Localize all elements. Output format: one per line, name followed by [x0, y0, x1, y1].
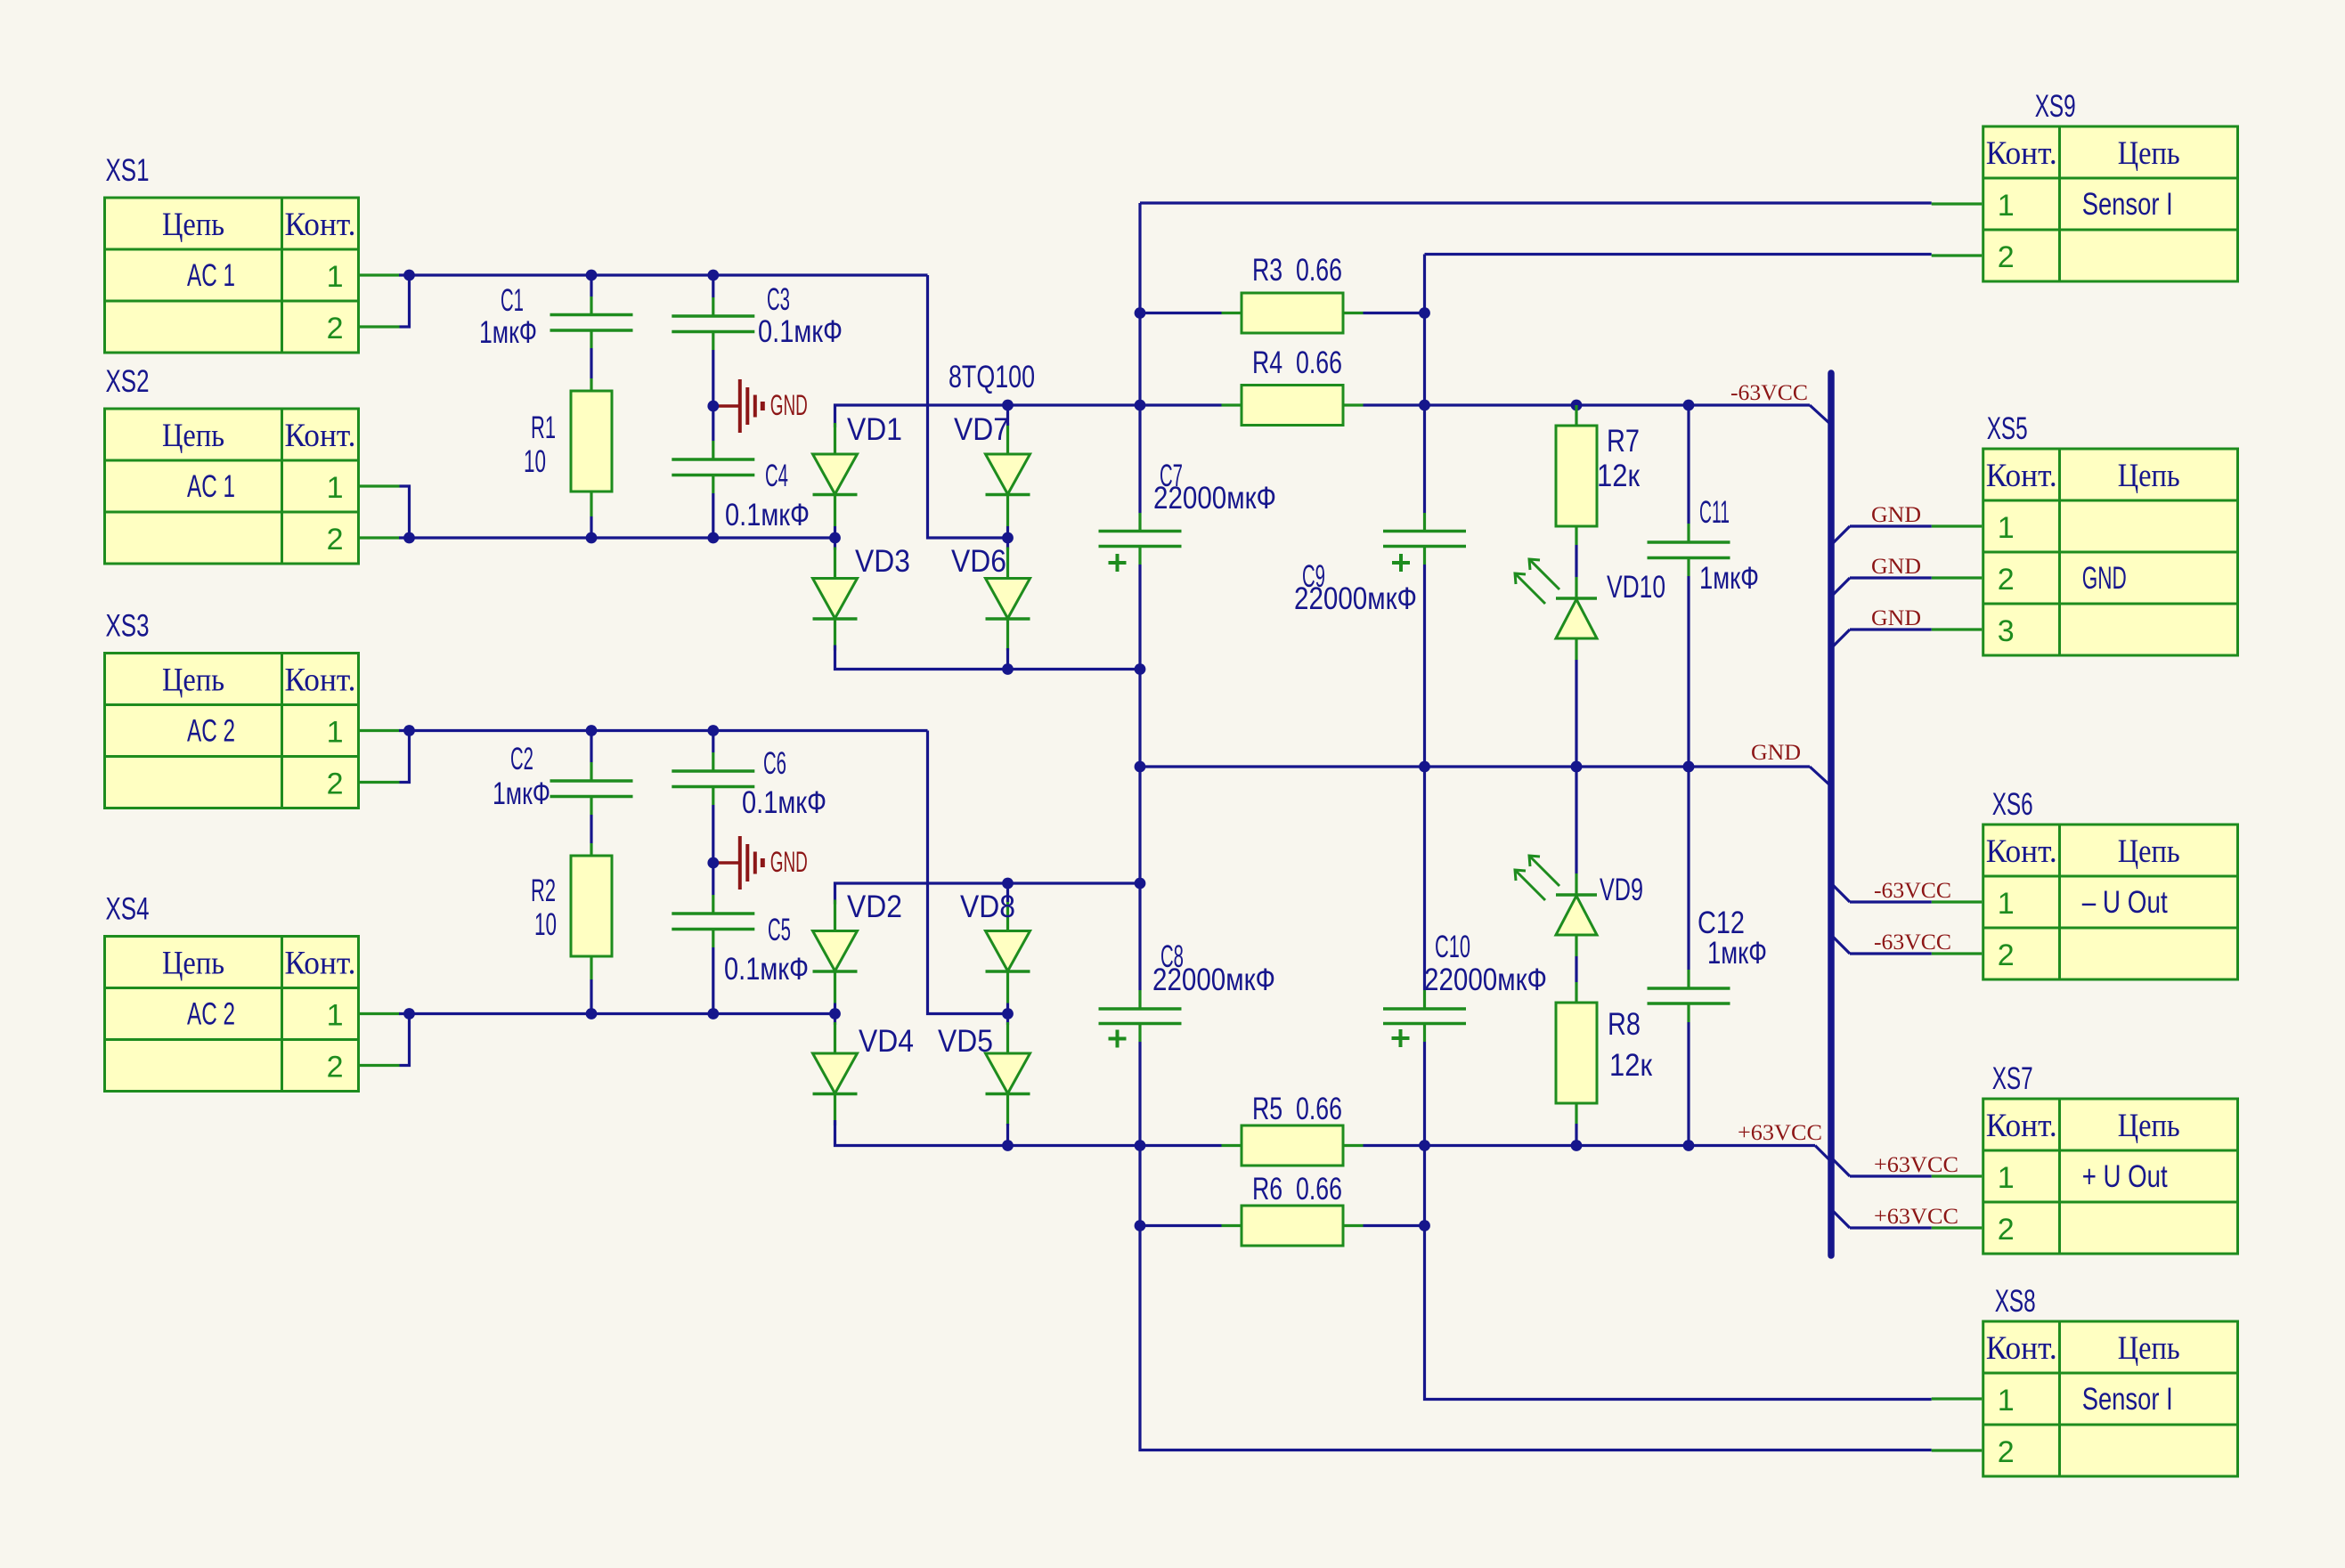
- svg-text:AC 2: AC 2: [187, 997, 235, 1032]
- svg-text:R1: R1: [531, 410, 556, 445]
- svg-text:VD2: VD2: [847, 890, 902, 924]
- resistor R6: [1140, 1206, 1425, 1246]
- svg-text:1: 1: [1998, 887, 2015, 921]
- svg-text:Цепь: Цепь: [2118, 135, 2180, 172]
- svg-text:1мкФ: 1мкФ: [479, 315, 537, 350]
- svg-text:Конт.: Конт.: [285, 946, 356, 982]
- svg-text:VD10: VD10: [1607, 570, 1665, 605]
- svg-text:Цепь: Цепь: [2118, 1108, 2180, 1144]
- connector XS5: [1932, 411, 2238, 655]
- junction C6 top: [707, 725, 719, 736]
- svg-text:0.1мкФ: 0.1мкФ: [724, 952, 809, 987]
- label C12: [1698, 906, 1767, 971]
- svg-text:2: 2: [1998, 563, 2015, 597]
- wire VD7-VD6 mid: [1006, 526, 1009, 550]
- capacitor C5: [672, 863, 754, 1014]
- label R8: [1608, 1007, 1653, 1083]
- svg-text:Sensor I: Sensor I: [2082, 1382, 2173, 1417]
- svg-text:GND: GND: [1751, 741, 1801, 765]
- ground symbol GND (bottom): [713, 836, 808, 890]
- connector XS6: [1932, 787, 2238, 979]
- svg-text:2: 2: [327, 312, 344, 345]
- svg-text:22000мкФ: 22000мкФ: [1153, 481, 1276, 516]
- svg-text:-63VCC: -63VCC: [1874, 930, 1951, 955]
- junction R3/C9col: [1419, 307, 1430, 319]
- svg-text:XS3: XS3: [106, 609, 150, 644]
- junction R2 bottom: [586, 1008, 598, 1020]
- junction C2 top: [586, 725, 598, 736]
- svg-text:GND: GND: [770, 389, 808, 421]
- label VD1: [847, 412, 902, 447]
- svg-text:1: 1: [1998, 1384, 2015, 1418]
- label VD8: [960, 890, 1015, 924]
- net label -63VCC (XS6 pin 1): [1874, 879, 1951, 903]
- svg-text:0.1мкФ: 0.1мкФ: [758, 314, 843, 349]
- junction VD6 bottom: [1002, 663, 1014, 675]
- label R2: [531, 873, 557, 942]
- wire C7 column vertical: [1140, 203, 1932, 1450]
- resistor R5: [1140, 1125, 1425, 1166]
- LED VD10: [1556, 545, 1597, 767]
- svg-text:R4 0.66: R4 0.66: [1252, 345, 1342, 380]
- junction XS4 tie: [403, 1008, 415, 1020]
- capacitor C7: [1099, 513, 1182, 565]
- junction C12 top: [1683, 761, 1695, 773]
- connector XS4: [105, 892, 400, 1092]
- svg-text:0.1мкФ: 0.1мкФ: [725, 498, 810, 532]
- polarity + C10: [1392, 1029, 1410, 1047]
- junction bridge2/C8col: [1135, 878, 1146, 890]
- svg-text:10: 10: [534, 907, 557, 942]
- svg-text:+63VCC: +63VCC: [1874, 1153, 1958, 1177]
- diode VD5: [986, 1022, 1030, 1125]
- junction VD7 top: [1002, 400, 1014, 411]
- label VD2: [847, 890, 902, 924]
- wire GND to XS5 pin 3: [1830, 630, 1932, 649]
- resistor R3: [1140, 293, 1425, 333]
- svg-text:1: 1: [1998, 189, 2015, 223]
- junction C12 bottom: [1683, 1140, 1695, 1151]
- diode VD4: [813, 1022, 858, 1125]
- label C5: [724, 913, 809, 987]
- label VD6: [951, 544, 1006, 579]
- junction VD7/VD6 mid: [1002, 532, 1014, 544]
- svg-text:XS7: XS7: [1992, 1061, 2033, 1096]
- capacitor C12: [1648, 767, 1730, 1146]
- svg-text:C2: C2: [510, 742, 533, 776]
- wire VD6 bottom stub: [1006, 648, 1009, 670]
- svg-text:R8: R8: [1608, 1007, 1641, 1042]
- junction R8 bottom: [1571, 1140, 1583, 1151]
- label C8: [1152, 939, 1275, 997]
- junction C11 bottom: [1683, 761, 1695, 773]
- svg-text:VD1: VD1: [847, 412, 902, 447]
- svg-text:+ U Out: + U Out: [2082, 1159, 2168, 1194]
- label C4: [725, 459, 810, 532]
- svg-text:-63VCC: -63VCC: [1874, 879, 1951, 903]
- wire XS1 pins tie + net AC1_A: [399, 275, 1008, 538]
- wire VD8 top stub: [1006, 883, 1009, 902]
- svg-text:2: 2: [327, 1051, 344, 1085]
- junction C3/C4 mid: [707, 401, 719, 412]
- net label -63VCC (rail): [1730, 381, 1808, 405]
- capacitor C4: [672, 406, 754, 538]
- label R6: [1252, 1172, 1342, 1206]
- svg-text:Конт.: Конт.: [285, 662, 356, 699]
- svg-text:XS1: XS1: [106, 153, 150, 188]
- svg-text:C10: C10: [1435, 930, 1470, 964]
- svg-text:1: 1: [327, 260, 344, 294]
- svg-text:22000мкФ: 22000мкФ: [1152, 963, 1275, 997]
- wire -63VCC rail: [1425, 405, 1832, 425]
- diode VD3: [813, 548, 858, 651]
- capacitor C11: [1648, 405, 1730, 767]
- svg-text:0.1мкФ: 0.1мкФ: [742, 785, 826, 820]
- label C2: [493, 742, 550, 811]
- svg-text:GND: GND: [1871, 606, 1921, 630]
- svg-text:Sensor I: Sensor I: [2082, 187, 2173, 222]
- svg-text:R3 0.66: R3 0.66: [1252, 253, 1342, 288]
- connector XS2: [105, 364, 400, 564]
- svg-text:Конт.: Конт.: [285, 207, 356, 243]
- svg-text:VD6: VD6: [951, 544, 1006, 579]
- svg-text:GND: GND: [770, 846, 808, 878]
- junction C7/R4: [1135, 400, 1146, 411]
- svg-text:-63VCC: -63VCC: [1730, 381, 1808, 405]
- svg-text:C6: C6: [763, 746, 786, 781]
- svg-text:Конт.: Конт.: [1986, 135, 2057, 172]
- label C9: [1294, 559, 1417, 616]
- net label +63VCC (XS7 pin 1): [1874, 1153, 1958, 1177]
- label R5: [1252, 1092, 1342, 1126]
- svg-text:12к: 12к: [1597, 459, 1641, 493]
- net label +63VCC (rail): [1738, 1121, 1822, 1145]
- label R3: [1252, 253, 1342, 288]
- net label GND (XS5 pin 2): [1871, 555, 1921, 579]
- svg-text:Конт.: Конт.: [1986, 833, 2057, 870]
- label R1: [524, 410, 556, 479]
- connector XS1: [105, 153, 400, 353]
- svg-text:AC 2: AC 2: [187, 714, 235, 749]
- svg-text:Цепь: Цепь: [2118, 1330, 2180, 1367]
- junction C3 top: [707, 270, 719, 281]
- svg-text:GND: GND: [1871, 555, 1921, 579]
- svg-text:XS5: XS5: [1987, 411, 2028, 446]
- wire VD2-VD4 mid: [834, 1003, 836, 1026]
- junction C1 top: [586, 270, 598, 281]
- svg-text:Цепь: Цепь: [2118, 833, 2180, 870]
- svg-text:XS9: XS9: [2035, 89, 2076, 124]
- wire bridge1 top rail: [835, 405, 1141, 427]
- junction VD5 bottom: [1002, 1140, 1014, 1151]
- wire GND to XS5 pin 1: [1830, 526, 1932, 546]
- LED VD9 arrows: [1515, 856, 1559, 900]
- junction GND/C7col: [1135, 761, 1146, 773]
- svg-text:R5 0.66: R5 0.66: [1252, 1092, 1342, 1126]
- label C6: [742, 746, 826, 820]
- wire +63VCC to XS7 pin 1: [1830, 1157, 1932, 1176]
- LED VD9: [1556, 767, 1597, 982]
- svg-text:Цепь: Цепь: [162, 662, 224, 699]
- svg-text:Цепь: Цепь: [162, 418, 224, 454]
- connector XS8: [1932, 1284, 2238, 1476]
- svg-text:1мкФ: 1мкФ: [1699, 561, 1759, 596]
- label C10: [1424, 930, 1547, 997]
- svg-text:1мкФ: 1мкФ: [493, 776, 550, 811]
- resistor R7: [1556, 405, 1597, 545]
- junction C7/R3: [1135, 307, 1146, 319]
- svg-text:R2: R2: [531, 873, 556, 908]
- wire XS9 pin2 net: [1425, 253, 1932, 256]
- svg-text:C1: C1: [501, 283, 524, 318]
- svg-text:1: 1: [327, 471, 344, 505]
- junction C5 bottom: [707, 1008, 719, 1020]
- junction VD1/VD3 mid: [829, 532, 841, 544]
- net label GND (rail): [1751, 741, 1801, 765]
- svg-text:C5: C5: [768, 913, 791, 947]
- svg-text:10: 10: [524, 444, 546, 479]
- wire VD8-VD5 mid: [1006, 1003, 1009, 1026]
- label C7: [1153, 459, 1276, 516]
- svg-text:2: 2: [1998, 1213, 2015, 1247]
- junction C11 top: [1683, 400, 1695, 411]
- wire +63VCC to XS7 pin 2: [1830, 1208, 1932, 1228]
- svg-text:R7: R7: [1607, 424, 1640, 459]
- resistor R4: [1140, 386, 1425, 426]
- junction R1 bottom: [586, 532, 598, 544]
- wire XS2 pins tie + net AC1_B: [399, 486, 835, 538]
- label VD10: [1607, 570, 1665, 605]
- junction XS3 tie: [403, 725, 415, 736]
- junction VD2/VD4 mid: [829, 1008, 841, 1020]
- junction XS2 tie: [403, 532, 415, 544]
- svg-text:2: 2: [1998, 938, 2015, 972]
- wire VD7 top stub: [1006, 405, 1009, 426]
- svg-text:2: 2: [1998, 1435, 2015, 1469]
- svg-text:Конт.: Конт.: [1986, 1330, 2057, 1367]
- svg-text:Конт.: Конт.: [1986, 458, 2057, 494]
- svg-text:XS6: XS6: [1992, 787, 2033, 822]
- label VD3: [855, 544, 910, 579]
- label C1: [479, 283, 537, 350]
- svg-text:12к: 12к: [1609, 1048, 1653, 1083]
- resistor R2: [571, 843, 612, 1014]
- svg-text:1: 1: [327, 999, 344, 1033]
- svg-text:XS2: XS2: [106, 364, 150, 399]
- junction C5/C6 mid: [707, 857, 719, 869]
- polarity + C8: [1109, 1030, 1127, 1048]
- net label GND (XS5 pin 3): [1871, 606, 1921, 630]
- svg-text:C4: C4: [765, 459, 788, 493]
- wire XS9 pin1 net: [1140, 201, 1932, 204]
- junction VD10 bottom: [1571, 761, 1583, 773]
- capacitor C2: [550, 731, 633, 844]
- resistor R8: [1556, 982, 1597, 1146]
- net label +63VCC (XS7 pin 2): [1874, 1205, 1958, 1229]
- label C11: [1699, 495, 1759, 596]
- net label GND (XS5 pin 1): [1871, 503, 1921, 527]
- svg-text:3: 3: [1998, 614, 2015, 648]
- label VD5: [938, 1024, 993, 1059]
- svg-text:Цепь: Цепь: [162, 207, 224, 243]
- svg-text:2: 2: [327, 768, 344, 801]
- svg-text:Цепь: Цепь: [162, 946, 224, 982]
- svg-text:VD5: VD5: [938, 1024, 993, 1059]
- svg-text:R6 0.66: R6 0.66: [1252, 1172, 1342, 1206]
- junction C7 bottom rail: [1135, 663, 1146, 675]
- junction C4 bottom: [707, 532, 719, 544]
- capacitor C9: [1383, 513, 1466, 565]
- wire -63VCC to XS6 pin 1: [1830, 882, 1932, 902]
- junction VD9 top: [1571, 761, 1583, 773]
- svg-text:C3: C3: [767, 282, 790, 317]
- wire VD1-VD3 mid: [834, 526, 836, 550]
- svg-text:XS4: XS4: [106, 892, 150, 927]
- junction R6/C8col: [1135, 1220, 1146, 1231]
- svg-text:1: 1: [1998, 511, 2015, 545]
- svg-text:8TQ100: 8TQ100: [949, 360, 1035, 394]
- wire GND to XS5 pin 2: [1830, 578, 1932, 597]
- LED VD10 arrows: [1515, 559, 1559, 604]
- capacitor C10: [1383, 990, 1466, 1042]
- wire -63VCC to XS6 pin 2: [1830, 934, 1932, 954]
- label C3: [758, 282, 843, 349]
- polarity + C7: [1109, 554, 1127, 572]
- wire VD5 bottom stub: [1006, 1124, 1009, 1146]
- svg-text:VD3: VD3: [855, 544, 910, 579]
- polarity + C9: [1392, 554, 1410, 572]
- label VD9: [1600, 873, 1643, 907]
- junction GND/C9col: [1419, 761, 1430, 773]
- svg-text:GND: GND: [2082, 561, 2127, 596]
- junction R5/C8col: [1135, 1140, 1146, 1151]
- net label -63VCC (XS6 pin 2): [1874, 930, 1951, 955]
- wire bridge1 bottom rail: [835, 646, 1141, 670]
- connector XS7: [1932, 1061, 2238, 1254]
- ground symbol GND (top): [713, 379, 808, 433]
- wire bridge2 bottom rail: [835, 1120, 1141, 1146]
- svg-text:C11: C11: [1699, 495, 1730, 530]
- junction R7 top: [1571, 400, 1583, 411]
- wire GND rail: [1140, 767, 1831, 786]
- svg-text:1: 1: [1998, 1161, 2015, 1195]
- svg-text:2: 2: [1998, 240, 2015, 274]
- svg-text:AC 1: AC 1: [187, 469, 235, 504]
- bus (vertical): [1828, 373, 1835, 1255]
- connector XS3: [105, 609, 400, 808]
- wire bridge2 top rail: [835, 883, 1141, 905]
- svg-text:Конт.: Конт.: [1986, 1108, 2057, 1144]
- svg-text:22000мкФ: 22000мкФ: [1424, 963, 1547, 997]
- junction VD8 top: [1002, 878, 1014, 890]
- svg-text:1: 1: [327, 716, 344, 750]
- svg-text:XS8: XS8: [1995, 1284, 2036, 1319]
- wire XS4 pins tie + net AC2_B: [399, 1014, 835, 1066]
- svg-text:AC 1: AC 1: [187, 258, 235, 293]
- capacitor C8: [1099, 990, 1182, 1042]
- capacitor C6: [672, 731, 754, 864]
- diode VD7: [986, 423, 1030, 526]
- svg-text:+63VCC: +63VCC: [1874, 1205, 1958, 1229]
- wire XS3 pins tie + net AC2_A: [399, 731, 1008, 1014]
- svg-text:2: 2: [327, 523, 344, 557]
- label R7: [1597, 424, 1641, 493]
- svg-text:+63VCC: +63VCC: [1738, 1121, 1822, 1145]
- junction R6/C10col: [1419, 1220, 1430, 1231]
- diode VD6: [986, 548, 1030, 651]
- svg-text:1мкФ: 1мкФ: [1707, 936, 1767, 971]
- svg-text:Конт.: Конт.: [285, 418, 356, 454]
- svg-text:VD7: VD7: [954, 412, 1009, 447]
- capacitor C3: [672, 275, 754, 406]
- wire C9 column vertical: [1425, 255, 1932, 1400]
- svg-text:– U Out: – U Out: [2082, 885, 2168, 920]
- junction VD8/VD5 mid: [1002, 1008, 1014, 1020]
- label VD7: [954, 412, 1009, 447]
- svg-text:VD4: VD4: [859, 1024, 914, 1059]
- svg-text:VD9: VD9: [1600, 873, 1643, 907]
- junction R5/C10col: [1419, 1140, 1430, 1151]
- label VD4: [859, 1024, 914, 1059]
- label R4: [1252, 345, 1342, 380]
- connector XS9: [1932, 89, 2238, 281]
- resistor R1: [571, 378, 612, 538]
- svg-text:GND: GND: [1871, 503, 1921, 527]
- diode VD1: [813, 423, 858, 526]
- diode VD8: [986, 900, 1030, 1003]
- junction R4/C9col: [1419, 400, 1430, 411]
- junction XS1 tie: [403, 270, 415, 281]
- wire +63VCC rail: [1425, 1146, 1832, 1162]
- svg-text:22000мкФ: 22000мкФ: [1294, 581, 1417, 616]
- capacitor C1: [550, 275, 633, 378]
- label 8TQ100: [949, 360, 1035, 394]
- svg-text:Цепь: Цепь: [2118, 458, 2180, 494]
- diode VD2: [813, 900, 858, 1003]
